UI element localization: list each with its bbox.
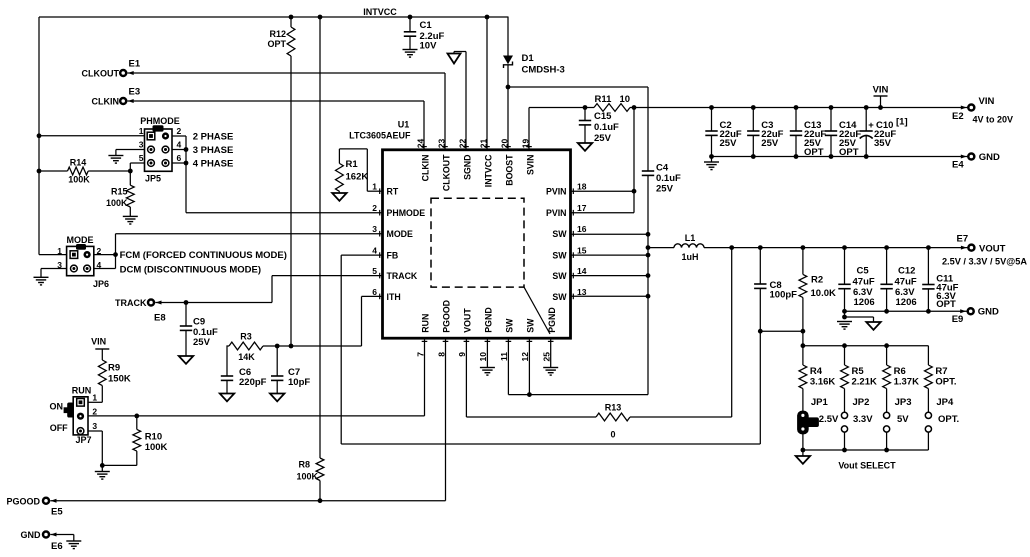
resistor R4: [799, 346, 835, 413]
junction PGOOD at R8: [318, 498, 323, 503]
svg-text:10: 10: [478, 352, 488, 362]
wire VOUT pin9 down: [465, 338, 467, 417]
svg-text:6: 6: [372, 287, 377, 297]
junction rail at R14: [37, 169, 42, 174]
svg-text:2.5V / 3.3V / 5V@5A: 2.5V / 3.3V / 5V@5A: [942, 257, 1027, 267]
resistor R11: [594, 94, 630, 111]
svg-text:23: 23: [437, 138, 447, 148]
svg-text:12: 12: [520, 352, 530, 362]
junction ITH at C7: [275, 344, 280, 349]
svg-text:OPT: OPT: [936, 299, 956, 310]
resistor R14: [39, 158, 130, 185]
junction GND rail at C10: [864, 154, 869, 159]
wire CLKOUT net: [128, 73, 446, 150]
jumper JP3: [884, 397, 912, 450]
junction VIN rail at C10: [864, 105, 869, 110]
ground output (hatch): [837, 322, 852, 330]
svg-text:100K: 100K: [145, 442, 168, 453]
wire SW pin13: [571, 295, 649, 297]
svg-text:3: 3: [372, 224, 377, 234]
svg-text:1: 1: [372, 182, 377, 192]
wire FB node to R2: [760, 330, 803, 332]
svg-text:10: 10: [620, 94, 631, 105]
svg-text:0: 0: [610, 430, 615, 440]
wire E6 to gnd: [50, 535, 74, 542]
label FCM: [120, 250, 287, 261]
junction GND rail at C13: [794, 154, 799, 159]
svg-text:U1: U1: [398, 120, 410, 130]
svg-text:R10: R10: [145, 432, 162, 443]
power flag VIN (input rail): [873, 85, 889, 108]
svg-text:E5: E5: [51, 507, 63, 518]
capacitor C10: [860, 108, 908, 157]
resistor R3: [229, 332, 263, 363]
svg-text:SVIN: SVIN: [525, 155, 535, 176]
svg-text:PVIN: PVIN: [546, 187, 567, 197]
junction bottom rail JP2: [842, 448, 847, 453]
svg-text:2 PHASE: 2 PHASE: [193, 132, 234, 143]
svg-text:PVIN: PVIN: [546, 208, 567, 218]
svg-text:5V: 5V: [897, 414, 909, 425]
svg-text:E9: E9: [952, 314, 964, 325]
wire R3 left corner: [227, 346, 229, 376]
svg-text:JP2: JP2: [853, 397, 870, 408]
wire divider gnd stem: [802, 450, 804, 456]
wire input GND rail: [712, 156, 969, 158]
svg-text:100K: 100K: [296, 472, 318, 482]
wire FB vertical to divider: [759, 331, 761, 444]
svg-text:1206: 1206: [854, 297, 875, 308]
svg-text:C15: C15: [594, 111, 612, 122]
svg-text:PGOOD: PGOOD: [6, 496, 40, 506]
svg-text:R6: R6: [894, 366, 906, 377]
label 2.5V: [819, 414, 839, 425]
svg-text:C12: C12: [898, 266, 915, 277]
terminal E6: [21, 530, 63, 552]
svg-text:[1]: [1]: [896, 117, 908, 128]
resistor R10: [133, 416, 168, 466]
svg-text:PHMODE: PHMODE: [387, 208, 426, 218]
svg-text:1: 1: [139, 126, 144, 136]
resistor R2: [799, 248, 836, 346]
label 3.3V: [853, 414, 873, 425]
label Vout SELECT: [838, 461, 896, 471]
label 3 PHASE: [193, 145, 234, 156]
svg-text:25V: 25V: [193, 337, 211, 348]
svg-text:CMDSH-3: CMDSH-3: [522, 65, 565, 76]
svg-text:13: 13: [577, 287, 587, 297]
wire MODE to pin3: [116, 233, 383, 235]
connector JP7 (RUN): [50, 386, 98, 446]
svg-text:2: 2: [177, 126, 182, 136]
wire CLKIN net: [128, 101, 425, 150]
resistor R13: [466, 403, 731, 440]
resistor R7: [925, 346, 957, 413]
svg-text:2: 2: [372, 203, 377, 213]
terminal E5: [6, 496, 63, 517]
svg-text:E7: E7: [957, 234, 969, 245]
svg-text:25V: 25V: [656, 184, 674, 195]
capacitor C4: [642, 87, 681, 195]
svg-text:R3: R3: [240, 332, 252, 342]
ground SGND (open triangle): [448, 52, 461, 64]
svg-text:LTC3605AEUF: LTC3605AEUF: [349, 131, 411, 141]
label 4 PHASE: [193, 159, 234, 170]
svg-text:21: 21: [479, 138, 489, 148]
svg-text:3: 3: [139, 140, 144, 150]
ground below C6 (open triangle): [220, 394, 234, 402]
resistor R5: [841, 346, 877, 413]
wire gnd tie: [845, 316, 874, 318]
junction VIN rail at C14: [829, 105, 834, 110]
label 5V: [897, 414, 909, 425]
svg-text:R1: R1: [346, 159, 359, 170]
wire divider bottom rail: [803, 449, 929, 451]
svg-text:JP3: JP3: [895, 397, 912, 408]
svg-text:R7: R7: [935, 366, 947, 377]
svg-text:OFF: OFF: [50, 423, 68, 433]
junction R2 bottom: [801, 329, 806, 334]
ground JP7 (hatch): [95, 465, 110, 479]
svg-text:1206: 1206: [896, 297, 917, 308]
svg-text:ITH: ITH: [387, 292, 401, 302]
svg-text:2.5V: 2.5V: [819, 414, 839, 425]
junction out-gnd C12: [884, 309, 889, 314]
wire TRACK net: [155, 276, 382, 303]
svg-text:100K: 100K: [106, 198, 128, 208]
ground E6 (hatch): [66, 541, 81, 549]
capacitor C7: [271, 346, 310, 394]
svg-text:1.37K: 1.37K: [894, 377, 919, 388]
svg-text:162K: 162K: [346, 172, 369, 183]
jumper JP4: [925, 397, 954, 450]
junction SW at L1: [646, 245, 651, 250]
resistor R12: [267, 17, 294, 346]
junction VIN rail at C13: [794, 105, 799, 110]
svg-text:CLKIN: CLKIN: [420, 155, 430, 182]
svg-text:CLKIN: CLKIN: [92, 97, 120, 107]
svg-text:TRACK: TRACK: [115, 298, 147, 308]
wire VIN rail: [634, 107, 968, 109]
wire BOOST to C4: [508, 86, 648, 88]
terminal E1: [82, 59, 141, 79]
svg-text:2: 2: [92, 407, 97, 417]
svg-text:9: 9: [457, 352, 467, 357]
wire SW pin15: [571, 254, 649, 256]
svg-text:JP6: JP6: [93, 279, 109, 289]
junction JP6 pin2: [113, 252, 118, 257]
svg-text:GND: GND: [21, 530, 42, 540]
junction ITH at R12: [289, 344, 294, 349]
svg-text:25V: 25V: [761, 138, 779, 149]
wire PHMODE to pin2: [186, 212, 383, 214]
capacitor C5: [838, 248, 875, 317]
wire INTVCC pin stub: [486, 17, 488, 150]
svg-text:OPT.: OPT.: [935, 377, 956, 388]
terminal E9: [952, 307, 999, 326]
junction divider R6: [884, 343, 889, 348]
svg-text:R4: R4: [810, 366, 823, 377]
capacitor C1: [404, 17, 445, 52]
svg-text:6: 6: [177, 153, 182, 163]
svg-text:VIN: VIN: [873, 85, 889, 96]
ground input rail: [704, 157, 719, 170]
resistor R6: [883, 346, 919, 413]
svg-text:R9: R9: [108, 363, 120, 374]
wire FB net: [341, 255, 760, 444]
ground below R1 (open triangle): [332, 193, 346, 201]
svg-text:D1: D1: [522, 53, 535, 64]
wire left rail: [38, 17, 40, 255]
resistor R15: [106, 171, 134, 216]
svg-text:GND: GND: [979, 152, 1000, 163]
svg-text:0.1uF: 0.1uF: [656, 173, 681, 184]
svg-text:OPT.: OPT.: [938, 414, 959, 425]
junction INTVCC rail at C1: [408, 15, 413, 20]
junction TRACK at C9: [184, 300, 189, 305]
svg-text:7: 7: [415, 352, 425, 357]
wire R11 to PVIN node: [630, 107, 634, 109]
svg-text:VIN: VIN: [91, 337, 106, 347]
resistor R9: [98, 360, 130, 402]
jumper JP2: [841, 397, 869, 450]
junction VOUT at C12: [884, 245, 889, 250]
svg-text:MODE: MODE: [387, 229, 414, 239]
junction rail at JP5 pin1: [37, 133, 42, 138]
wire RUN net: [88, 338, 425, 416]
capacitor C11: [922, 248, 958, 312]
svg-text:47uF: 47uF: [895, 277, 917, 288]
wire SGND pin to ground: [454, 52, 466, 150]
svg-text:SW: SW: [552, 271, 567, 281]
svg-text:14K: 14K: [238, 352, 255, 362]
label OPT.: [938, 414, 959, 425]
svg-text:R5: R5: [852, 366, 865, 377]
svg-text:15: 15: [577, 246, 587, 256]
junction JP7 gnd: [100, 463, 105, 468]
svg-text:BOOST: BOOST: [504, 154, 514, 186]
svg-text:25: 25: [542, 352, 552, 362]
svg-text:SW: SW: [505, 318, 515, 333]
junction bottom rail JP3: [884, 448, 889, 453]
wire BOOST pin stub: [507, 87, 509, 150]
svg-text:100K: 100K: [68, 175, 90, 185]
junction VIN rail at C2: [709, 105, 714, 110]
svg-text:C1: C1: [420, 20, 433, 31]
svg-text:FB: FB: [387, 251, 399, 261]
ground JP5 pin3: [108, 150, 144, 164]
wire rail C15 to R11: [585, 107, 594, 109]
junction FB node at C8: [758, 329, 763, 334]
capacitor C2: [705, 108, 742, 157]
power flag VIN (RUN): [91, 337, 109, 361]
ground output (open triangle): [866, 317, 880, 330]
junction GND rail at C2: [709, 154, 714, 159]
wire SW pins 11-12: [508, 338, 648, 394]
svg-text:R2: R2: [811, 275, 823, 286]
svg-text:C5: C5: [857, 266, 870, 277]
junction SW14: [646, 273, 651, 278]
svg-text:R8: R8: [298, 460, 310, 470]
svg-text:RT: RT: [387, 187, 399, 197]
junction VOUT at C11: [926, 245, 931, 250]
svg-text:25V: 25V: [594, 133, 612, 144]
resistor R1: [336, 149, 383, 193]
svg-text:JP4: JP4: [936, 397, 954, 408]
svg-text:25V: 25V: [720, 138, 738, 149]
svg-text:4: 4: [372, 246, 377, 256]
junction VOUT at R2: [801, 245, 806, 250]
junction RUN at R10: [134, 414, 139, 419]
svg-text:JP1: JP1: [811, 397, 829, 408]
svg-text:4V to 20V: 4V to 20V: [973, 115, 1014, 125]
svg-text:SGND: SGND: [462, 155, 472, 180]
junction JP5 pin4: [184, 147, 189, 152]
capacitor C9: [180, 303, 218, 357]
junction bottom rail JP1: [801, 448, 806, 453]
svg-text:VOUT: VOUT: [979, 243, 1006, 254]
op-amp U1 (LTC3605AEUF): [349, 120, 587, 362]
svg-text:PHMODE: PHMODE: [140, 116, 180, 126]
wire PGOOD net: [50, 338, 445, 501]
junction INTVCC rail at R8: [318, 15, 323, 20]
svg-text:L1: L1: [685, 233, 696, 243]
svg-text:R14: R14: [70, 158, 87, 168]
junction PVIN node: [632, 105, 637, 110]
junction GND rail at C14: [829, 154, 834, 159]
svg-text:SW: SW: [552, 292, 567, 302]
svg-text:ON: ON: [50, 402, 64, 412]
svg-text:VOUT: VOUT: [463, 308, 473, 333]
wire SVIN pin to rail: [529, 108, 585, 150]
svg-text:R15: R15: [111, 187, 128, 197]
junction GND rail at C3: [751, 154, 756, 159]
svg-text:19: 19: [521, 138, 531, 148]
junction divider top: [801, 343, 806, 348]
svg-text:SW: SW: [526, 318, 536, 333]
resistor R8: [296, 17, 323, 501]
svg-text:22: 22: [458, 138, 468, 148]
svg-text:220pF: 220pF: [239, 377, 267, 388]
junction SW13: [646, 294, 651, 299]
svg-text:5: 5: [139, 153, 144, 163]
svg-text:100pF: 100pF: [770, 290, 798, 301]
capacitor C8: [754, 248, 797, 332]
junction VOUT at R13: [729, 245, 734, 250]
svg-text:17: 17: [577, 203, 587, 213]
wire SW pin14: [571, 275, 649, 277]
svg-text:3.3V: 3.3V: [853, 414, 873, 425]
svg-text:5: 5: [372, 266, 377, 276]
node INTVCC label: [363, 7, 397, 17]
wire JP5 pin1 to rail: [39, 135, 145, 137]
ground JP6 pin3: [34, 269, 67, 285]
wire JP5 pin5: [130, 163, 144, 171]
svg-text:E3: E3: [129, 87, 141, 98]
terminal E3: [92, 87, 141, 107]
svg-text:E6: E6: [51, 541, 63, 552]
capacitor C6: [221, 367, 267, 394]
ground below C1: [403, 50, 418, 58]
junction VIN rail at C3: [751, 105, 756, 110]
junction JP5 pin6: [184, 161, 189, 166]
svg-text:150K: 150K: [108, 374, 131, 385]
svg-text:RUN: RUN: [421, 314, 431, 333]
wire SW vertical: [647, 176, 649, 395]
wire SW pin16: [571, 233, 649, 235]
ground below C15 (open triangle): [578, 143, 592, 151]
wire ITH net: [263, 296, 383, 346]
ground divider (open triangle): [796, 456, 810, 464]
svg-text:47uF: 47uF: [853, 277, 875, 288]
wire R13 to VOUT rail: [731, 248, 733, 417]
junction out-gnd C5: [842, 309, 847, 314]
svg-text:CLKOUT: CLKOUT: [82, 69, 120, 79]
ground below C7 (open triangle): [270, 394, 284, 402]
svg-text:24: 24: [416, 138, 426, 148]
wire rail to JP6 pin1: [39, 254, 67, 256]
svg-text:3: 3: [92, 421, 97, 431]
svg-text:E2: E2: [952, 111, 964, 122]
svg-text:1uH: 1uH: [681, 252, 698, 262]
capacitor C15: [579, 108, 619, 145]
junction out-gnd C11: [926, 309, 931, 314]
junction SW16: [646, 232, 651, 237]
capacitor C13: [790, 108, 827, 159]
capacitor C14: [825, 108, 862, 159]
svg-text:GND: GND: [978, 307, 999, 318]
svg-text:3 PHASE: 3 PHASE: [193, 145, 234, 156]
label 2 PHASE: [193, 132, 234, 143]
ground below R15: [123, 216, 138, 224]
svg-text:0.1uF: 0.1uF: [594, 122, 619, 133]
svg-text:DCM (DISCONTINUOUS MODE): DCM (DISCONTINUOUS MODE): [120, 264, 261, 275]
junction PVIN pin18: [632, 189, 637, 194]
ground below C9 (open triangle): [179, 356, 193, 364]
svg-text:16: 16: [577, 224, 587, 234]
junction divider R5: [842, 343, 847, 348]
svg-text:11: 11: [499, 352, 509, 361]
svg-text:JP5: JP5: [145, 174, 161, 184]
diode D1: [503, 17, 565, 87]
connector JP6 (MODE): [57, 235, 109, 289]
svg-text:10.0K: 10.0K: [811, 288, 836, 299]
svg-text:PGND: PGND: [484, 307, 494, 332]
junction BOOST node: [506, 85, 511, 90]
svg-text:35V: 35V: [874, 138, 892, 149]
junction gnd tie: [842, 315, 847, 320]
wire JP5 pins 2-4-6 bus: [172, 136, 186, 213]
svg-text:C4: C4: [656, 163, 669, 174]
junction VOUT at C8: [758, 245, 763, 250]
svg-text:INTVCC: INTVCC: [363, 7, 397, 17]
svg-text:MODE: MODE: [67, 235, 94, 245]
inductor L1: [648, 233, 968, 262]
terminal E4: [952, 152, 1000, 171]
svg-text:VIN: VIN: [979, 96, 995, 107]
junction SW pin12: [527, 392, 532, 397]
svg-text:2.21K: 2.21K: [852, 377, 877, 388]
svg-text:SW: SW: [552, 251, 567, 261]
label DCM: [120, 264, 261, 275]
svg-text:14: 14: [577, 266, 587, 276]
svg-text:C9: C9: [193, 317, 205, 328]
svg-text:SW: SW: [552, 229, 567, 239]
connector JP5 (PHMODE): [139, 116, 182, 184]
terminal E7: [942, 234, 1027, 267]
wire JP7 pin1 to R9: [88, 401, 102, 403]
junction INTVCC rail at pin21: [485, 15, 490, 20]
